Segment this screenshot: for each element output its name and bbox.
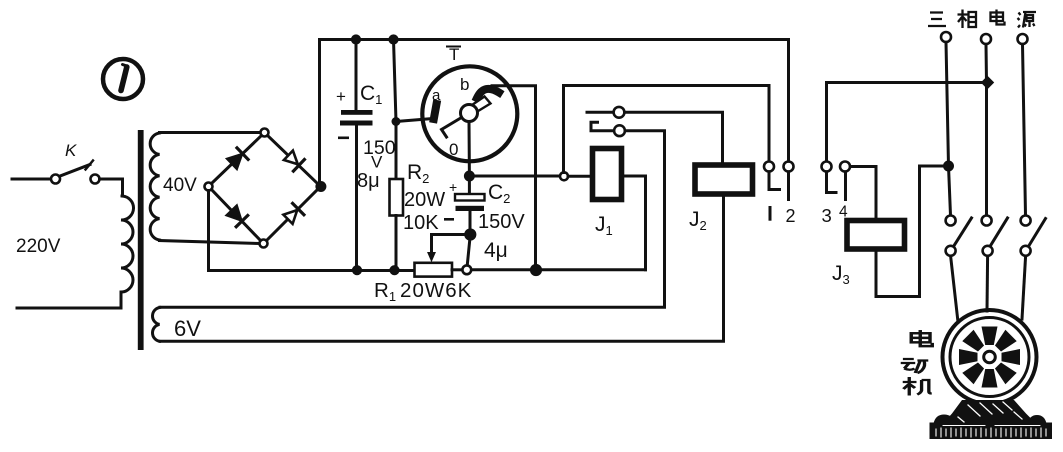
wire: phase L1 down bbox=[946, 42, 951, 215]
three-phase supply terminal L2 bbox=[981, 34, 991, 44]
switch K bbox=[51, 175, 60, 184]
junction node phase L2 bbox=[982, 77, 994, 89]
resistor R2 bbox=[390, 179, 404, 216]
bridge arm wire bottom-left bbox=[212, 190, 261, 241]
junction node below C2 bbox=[465, 229, 476, 240]
terminal 1 bbox=[764, 162, 774, 172]
contactor J3-1 upper bbox=[946, 216, 956, 226]
rotary contact b bbox=[477, 89, 499, 98]
svg-text:b: b bbox=[460, 75, 469, 94]
figure number 1 (circled) bbox=[103, 59, 143, 99]
transformer 6V secondary winding bbox=[152, 308, 159, 342]
wire: 40V bottom to bridge bottom node bbox=[160, 241, 260, 244]
char dian2 bbox=[911, 330, 932, 346]
relay coil J2 bbox=[695, 165, 753, 194]
junction node rail (b wire) bbox=[530, 264, 541, 275]
capacitor C1 bbox=[355, 40, 358, 111]
transformer primary winding bbox=[121, 196, 134, 292]
R1 right terminal node bbox=[462, 265, 471, 274]
contactor J3-2 blade bbox=[989, 218, 1008, 248]
bridge node top bbox=[261, 129, 269, 137]
bridge arm wire bottom-right bbox=[267, 190, 318, 241]
wire: 220V lead to switch K bbox=[12, 178, 51, 181]
junction node rail bottom of C1 bbox=[352, 266, 361, 275]
label - of C2 bbox=[444, 218, 454, 221]
char san bbox=[928, 13, 946, 27]
rotary timer switch T body bbox=[422, 66, 517, 161]
motor base hatching bbox=[936, 402, 1046, 437]
contactor J3-2 upper bbox=[982, 216, 992, 226]
svg-text:220V: 220V bbox=[16, 236, 61, 257]
wire: contactor 1 to motor bbox=[951, 256, 958, 322]
svg-text:T: T bbox=[449, 45, 459, 64]
wire: primary winding bottom lead bbox=[17, 292, 121, 308]
svg-text:4μ: 4μ bbox=[484, 239, 508, 262]
rheostat R1 bbox=[415, 263, 453, 277]
svg-text:+: + bbox=[336, 87, 346, 106]
bridge node left bbox=[205, 183, 213, 191]
wire: 6V winding top lead bbox=[160, 306, 665, 309]
wire: R1 right lead bbox=[452, 268, 462, 271]
svg-text:40V: 40V bbox=[163, 175, 197, 196]
contactor J3-1 lower bbox=[946, 246, 956, 256]
contactor J3-1 blade bbox=[953, 218, 972, 248]
terminal 3 bbox=[822, 162, 832, 172]
char dong bbox=[901, 359, 929, 373]
terminal 4 bbox=[840, 162, 850, 172]
motor body inner bbox=[950, 318, 1029, 397]
bridge node right (junction) bbox=[316, 182, 326, 192]
wire: negative rail middle section bbox=[471, 268, 646, 271]
capacitor C2 bbox=[468, 176, 471, 194]
terminal 2 bbox=[784, 162, 794, 172]
svg-text:6V: 6V bbox=[174, 316, 201, 341]
svg-text:+: + bbox=[449, 179, 457, 195]
wire: C2 node down to R1 right terminal bbox=[467, 235, 470, 265]
bridge arm wire top-right bbox=[268, 136, 318, 184]
wire: switch K to transformer primary bbox=[100, 179, 123, 196]
relay coil J3 bbox=[847, 221, 905, 250]
char dian bbox=[991, 10, 1005, 25]
svg-text:R120W6K: R120W6K bbox=[374, 279, 472, 304]
diode D3 bbox=[227, 206, 241, 220]
wire: branch node up and over to terminal 1 bbox=[564, 86, 770, 173]
contactor J3-2 lower bbox=[983, 246, 993, 256]
motor rotor wedges bbox=[959, 327, 1020, 388]
contactor J3-3 lower bbox=[1021, 246, 1031, 256]
wire: phase L3 down bbox=[1023, 44, 1026, 215]
wire: rail up to relay J1 right terminal bbox=[624, 176, 646, 270]
wire: J2 bottom to 6V winding bottom bbox=[160, 195, 724, 342]
wire: bridge left node down to negative rail bbox=[209, 191, 415, 271]
junction node a-tap bbox=[392, 118, 400, 126]
wire: tap to rotary contact a bbox=[396, 119, 433, 122]
transformer 40V secondary winding bbox=[150, 133, 159, 240]
relay contact J1-upper (to J2) bbox=[587, 111, 614, 114]
junction node on top rail (R2 branch) bbox=[389, 35, 398, 44]
contactor J3-3 blade bbox=[1028, 219, 1046, 249]
rotary pivot bbox=[461, 105, 478, 122]
label motor (CJK drawn) bbox=[901, 330, 933, 395]
three-phase supply terminal L3 bbox=[1018, 34, 1028, 44]
motor hub bbox=[984, 351, 996, 363]
svg-text:3: 3 bbox=[822, 205, 832, 226]
three-phase supply terminal L1 bbox=[941, 32, 951, 42]
svg-text:8μ: 8μ bbox=[357, 170, 380, 192]
svg-text:V: V bbox=[371, 153, 383, 172]
svg-text:150V: 150V bbox=[478, 211, 525, 233]
char yuan bbox=[1018, 12, 1037, 28]
wire: C2 node to R1 wiper bbox=[432, 235, 471, 251]
diode D1 bbox=[228, 155, 242, 169]
wire: pivot down to node 0 bbox=[468, 122, 471, 176]
label 1 bbox=[769, 208, 772, 220]
diode D4 bbox=[283, 210, 297, 224]
svg-text:0: 0 bbox=[449, 140, 458, 159]
diode D2 bbox=[284, 151, 298, 165]
svg-text:10K: 10K bbox=[403, 212, 439, 234]
motor base bbox=[930, 400, 1053, 439]
char ji bbox=[903, 377, 932, 396]
contactor J3-3 upper bbox=[1021, 216, 1031, 226]
wire: phase L2 down bbox=[985, 44, 989, 215]
wire: terminal 4 to J3 bbox=[850, 167, 876, 220]
junction node rail bottom of R2 bbox=[390, 266, 399, 275]
wire: node 0 to J1 branch point bbox=[469, 175, 564, 178]
wire: top rail down to R2 bbox=[394, 40, 397, 180]
wire: contact b out to the right bbox=[492, 86, 536, 270]
label three-phase power (CJK drawn) bbox=[928, 10, 1036, 29]
svg-text:20W: 20W bbox=[404, 189, 445, 211]
motor body outer bbox=[943, 310, 1037, 404]
wire: R2 bottom to rail bbox=[395, 216, 398, 271]
wire: J3 bottom to phase L1 node bbox=[876, 166, 944, 297]
wire: contactor 2 to motor bbox=[986, 256, 990, 311]
junction node J1 branch bbox=[560, 172, 568, 180]
relay coil J1 bbox=[593, 149, 622, 200]
svg-text:K: K bbox=[65, 141, 77, 160]
rotary wiper arm (open) bbox=[469, 97, 491, 114]
R1 wiper arrow bbox=[430, 250, 433, 255]
wire: branch node to J1 left terminal bbox=[568, 175, 592, 178]
transformer core bbox=[138, 130, 144, 350]
char xiang bbox=[958, 10, 977, 29]
label - of C1 bbox=[338, 137, 349, 140]
svg-text:a: a bbox=[432, 87, 441, 104]
junction node phase L1 bbox=[944, 161, 954, 171]
rotary wiper arm (thin, toward a) bbox=[442, 118, 462, 138]
junction node on top rail (C1) bbox=[351, 35, 360, 44]
rotary contact a bbox=[434, 104, 437, 119]
bridge arm wire top-left bbox=[212, 136, 262, 184]
wire: bridge right node up and positive top rail bbox=[320, 40, 789, 183]
wire: 40V top to bridge top node bbox=[160, 131, 261, 134]
wire: contactor 3 to motor bbox=[1022, 256, 1026, 319]
svg-text:2: 2 bbox=[786, 206, 796, 226]
relay contact J1-lower (to 6V) bbox=[591, 122, 614, 130]
wire: phase L2 tap to terminal 3 bbox=[827, 83, 987, 162]
bridge node bottom bbox=[260, 240, 268, 248]
junction node 0 bbox=[464, 171, 474, 181]
